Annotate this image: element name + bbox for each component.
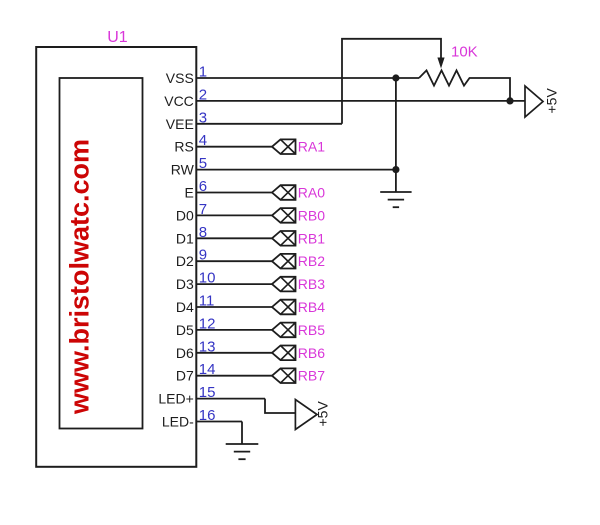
svg-text:U1: U1: [107, 29, 128, 46]
svg-text:RB2: RB2: [298, 253, 325, 269]
svg-text:RS: RS: [174, 139, 193, 155]
svg-text:VSS: VSS: [166, 70, 194, 86]
svg-text:RB1: RB1: [298, 230, 325, 246]
svg-text:D6: D6: [176, 345, 194, 361]
svg-text:RB4: RB4: [298, 299, 325, 315]
svg-text:15: 15: [199, 384, 216, 401]
svg-text:6: 6: [199, 178, 207, 195]
svg-text:VCC: VCC: [164, 93, 194, 109]
svg-text:+5V: +5V: [544, 88, 560, 114]
svg-text:RW: RW: [171, 162, 195, 178]
svg-text:5: 5: [199, 155, 207, 172]
svg-text:RB0: RB0: [298, 207, 325, 223]
svg-text:8: 8: [199, 224, 207, 241]
svg-text:www.bristolwatc.com: www.bristolwatc.com: [65, 139, 95, 415]
svg-text:RB6: RB6: [298, 345, 325, 361]
svg-text:LED+: LED+: [158, 391, 193, 407]
svg-text:10: 10: [199, 270, 216, 287]
svg-text:D2: D2: [176, 253, 194, 269]
svg-text:D0: D0: [176, 207, 194, 223]
svg-text:2: 2: [199, 86, 207, 103]
svg-text:LED-: LED-: [162, 414, 194, 430]
svg-text:13: 13: [199, 338, 216, 355]
svg-text:14: 14: [199, 361, 216, 378]
svg-text:E: E: [184, 185, 193, 201]
svg-text:D3: D3: [176, 276, 194, 292]
svg-text:7: 7: [199, 201, 207, 218]
svg-text:VEE: VEE: [166, 116, 194, 132]
svg-text:D7: D7: [176, 368, 194, 384]
svg-text:16: 16: [199, 407, 216, 424]
svg-text:RB5: RB5: [298, 322, 325, 338]
svg-text:1: 1: [199, 64, 207, 81]
svg-text:10K: 10K: [451, 43, 478, 60]
svg-text:RB7: RB7: [298, 368, 325, 384]
svg-text:D1: D1: [176, 230, 194, 246]
svg-text:RA1: RA1: [298, 139, 325, 155]
svg-text:9: 9: [199, 247, 207, 264]
svg-text:RB3: RB3: [298, 276, 325, 292]
svg-text:4: 4: [199, 132, 207, 149]
svg-text:11: 11: [199, 293, 215, 310]
svg-text:RA0: RA0: [298, 185, 325, 201]
svg-text:+5V: +5V: [315, 401, 331, 427]
svg-text:3: 3: [199, 109, 207, 126]
svg-text:D4: D4: [176, 299, 194, 315]
svg-text:12: 12: [199, 315, 216, 332]
svg-text:D5: D5: [176, 322, 194, 338]
